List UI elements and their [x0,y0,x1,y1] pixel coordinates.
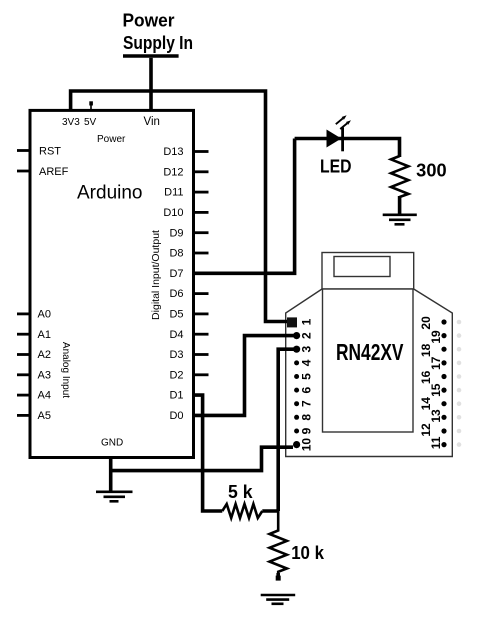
Arduino digital pin labels D13-D0 [163,146,183,422]
svg-text:5 k: 5 k [228,482,253,502]
Arduino label Digital Input/Output rotated [150,230,162,320]
module body rectangle [323,289,414,432]
svg-text:A4: A4 [38,390,51,402]
ghost pin dots right of module [457,320,462,447]
label 5 k [228,482,253,502]
svg-text:A2: A2 [38,349,51,361]
module antenna outer rectangle [322,253,414,290]
svg-text:D1: D1 [169,390,183,402]
module right pin dots 11-20 [441,319,446,447]
svg-text:18: 18 [419,343,433,357]
svg-text:RST: RST [39,146,61,158]
svg-text:D3: D3 [169,349,183,361]
svg-text:5V: 5V [84,117,97,128]
resistor 300 zigzag [391,156,408,197]
svg-text:20: 20 [419,316,433,330]
svg-text:D10: D10 [163,207,183,219]
label LED [320,156,352,176]
svg-text:D9: D9 [169,227,183,239]
svg-text:9: 9 [300,427,314,434]
svg-text:4: 4 [300,359,314,366]
svg-text:19: 19 [429,330,443,344]
5V pin stub [89,101,93,110]
Arduino pin label GND [101,437,123,448]
Arduino label [77,182,143,203]
svg-text:12: 12 [419,423,433,437]
Arduino label Power [97,134,126,145]
svg-text:10 k: 10 k [291,543,325,563]
wire ground rail to module pin 10 [111,447,293,470]
wire LED anode segment [295,139,400,158]
wire divider junction to module pin 3 [278,349,294,511]
wire 3V3 rail to module pin 1 [71,91,287,322]
svg-text:11: 11 [429,436,443,449]
svg-text:D2: D2 [169,369,183,381]
svg-text:3V3: 3V3 [62,117,80,128]
svg-text:D13: D13 [163,146,183,158]
svg-text:10: 10 [300,438,314,452]
ground symbol Arduino [96,492,133,502]
svg-text:A3: A3 [38,369,51,381]
svg-text:AREF: AREF [39,166,69,178]
wire D7 to LED branch [194,139,295,274]
svg-text:16: 16 [419,370,433,384]
svg-text:300: 300 [416,161,446,181]
Arduino board outline [30,110,194,457]
svg-text:GND: GND [101,437,123,448]
svg-text:D6: D6 [169,288,183,300]
svg-text:1: 1 [300,318,314,325]
svg-text:6: 6 [300,386,314,393]
svg-text:7: 7 [300,400,314,407]
wire Arduino GND down [109,458,113,492]
module label RN42XV [336,339,404,365]
svg-text:3: 3 [300,346,314,353]
svg-text:2: 2 [300,332,314,339]
svg-text:A0: A0 [38,309,51,321]
LED light arrows [336,115,351,129]
label 10 k [291,543,325,563]
module pin 1 square pad [287,317,297,327]
ground symbol LED branch [383,215,417,225]
module left pin numbers 1-10 [300,318,314,451]
svg-text:D4: D4 [169,329,183,341]
resistor 5k zigzag [222,504,262,518]
svg-text:Power: Power [123,11,175,31]
svg-text:14: 14 [419,397,433,411]
svg-text:Arduino: Arduino [77,182,143,203]
Arduino analog pin labels A0-A5 [38,309,51,423]
svg-text:D0: D0 [169,410,183,422]
label Power Supply In [123,11,194,53]
module antenna inner rectangle [334,257,390,277]
Arduino left pin stubs [17,151,30,416]
svg-text:D12: D12 [163,166,183,178]
Arduino label Analog Input rotated [60,342,71,398]
Arduino pin label 3V3 [62,117,80,128]
svg-text:Analog Input: Analog Input [60,342,71,398]
Arduino pin label 5V [84,117,97,128]
Arduino pin label AREF [39,166,69,178]
svg-text:15: 15 [429,383,443,397]
svg-text:A5: A5 [38,410,51,422]
svg-text:13: 13 [429,409,443,423]
LED D1 symbol [327,128,343,152]
svg-text:5: 5 [300,373,314,380]
Arduino pin label Vin [144,116,160,128]
resistor 10k zigzag [270,511,287,574]
svg-text:Supply In: Supply In [123,33,193,53]
svg-text:A1: A1 [38,329,51,341]
svg-text:D11: D11 [164,187,183,199]
svg-text:8: 8 [300,414,314,421]
ground symbol divider [261,595,296,604]
wire D0 to module pin 2 [194,336,294,416]
svg-text:D5: D5 [169,309,183,321]
svg-text:Power: Power [97,134,126,145]
wire 10k to ground [276,573,281,581]
module RN42XV outline plate [286,289,453,457]
svg-text:LED: LED [320,156,352,176]
module right pin numbers 11-20 [419,316,443,449]
wire power supply to Vin [149,58,153,111]
label 300 [416,161,446,181]
Arduino pin label RST [39,146,61,158]
wire 5k to divider junction [262,509,278,513]
wire resistor 300 to ground [398,196,402,214]
svg-text:D8: D8 [169,248,183,260]
module left pin dots 2-10 [293,332,300,448]
svg-text:D7: D7 [169,268,183,280]
svg-text:RN42XV: RN42XV [336,339,404,365]
power supply terminal bar [123,54,179,58]
svg-text:Digital Input/Output: Digital Input/Output [150,230,162,320]
wire D1 to 5k resistor [194,395,222,511]
svg-text:Vin: Vin [144,116,160,128]
Arduino right pin stubs [194,152,209,375]
svg-text:17: 17 [429,356,443,370]
